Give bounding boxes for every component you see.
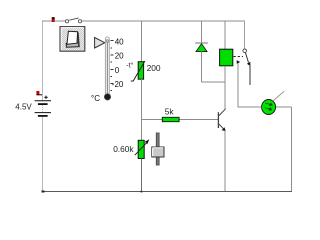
thermometer bulb bbox=[104, 94, 110, 100]
wire: fixed contact lead down to lamp bbox=[238, 63, 261, 107]
wire: top-left horizontal from left rail to switch bbox=[42, 20, 65, 22]
battery B1 4.5V cell plates bbox=[35, 101, 51, 117]
switch SW1 right terminal bbox=[78, 20, 81, 23]
wire: top horizontal bus from switch to relay contact branch bbox=[82, 20, 245, 22]
relay actuation dashed link bbox=[234, 56, 244, 58]
wire: lamp right lead bbox=[276, 106, 291, 108]
svg-text:20: 20 bbox=[115, 52, 124, 61]
switch SW1 blade bbox=[69, 18, 78, 20]
diode D1 cathode bar bbox=[195, 42, 208, 44]
svg-text:5k: 5k bbox=[165, 107, 175, 117]
junction dot bottom-left bbox=[42, 191, 45, 193]
transistor Q1 emitter diagonal bbox=[219, 124, 225, 130]
lamp pointer diagonal line bbox=[273, 91, 284, 101]
relay contact blade bbox=[245, 53, 248, 63]
relay contact pivot terminal bbox=[243, 49, 247, 53]
thermometer scale ticks bbox=[110, 41, 113, 91]
wire: thermistor branch upper (top bus to thermistor) bbox=[140, 21, 142, 62]
transistor Q1 base bar bbox=[217, 112, 219, 128]
wire: left rail vertical above battery bbox=[42, 21, 44, 101]
svg-text:-20: -20 bbox=[112, 80, 124, 89]
potentiometer wiper arrow bbox=[135, 139, 150, 155]
svg-text:200: 200 bbox=[147, 63, 161, 73]
resistor R2 5k body bbox=[162, 117, 179, 121]
battery plus sign bbox=[44, 96, 47, 99]
transistor Q1 collector diagonal bbox=[219, 109, 226, 116]
transistor Q1 emitter arrow bbox=[222, 127, 226, 131]
lamp L1 (lit) body bbox=[262, 100, 276, 115]
wire: right return vertical bbox=[290, 107, 292, 192]
wire: thermistor branch lower (thermistor to potentiometer) bbox=[140, 79, 142, 140]
switch SW1 (open) left terminal bbox=[65, 20, 68, 23]
thermometer tube bbox=[105, 37, 109, 95]
wire: coil to transistor collector bbox=[224, 66, 226, 109]
rocker switch button icon bbox=[60, 27, 85, 52]
wire: relay contact branch from top bus bbox=[244, 21, 246, 49]
svg-text:0.60k: 0.60k bbox=[113, 144, 134, 154]
wire: left rail vertical below battery bbox=[42, 117, 44, 192]
thermometer pointer arrow bbox=[95, 38, 105, 49]
thermistor RT1 body bbox=[138, 62, 143, 79]
thermistor symbol diagonal with foot bbox=[131, 61, 145, 81]
rocker white key bbox=[67, 31, 78, 44]
svg-text:0: 0 bbox=[115, 66, 120, 75]
wire: base wire from branch to transistor bbox=[141, 119, 218, 121]
relay actuation arrow right bbox=[247, 62, 250, 66]
lamp interior marks bbox=[265, 103, 273, 110]
relay actuation arrow left bbox=[237, 60, 241, 64]
wire: bottom bus bbox=[42, 191, 292, 193]
wire: diode branch upper (top bus to diode) bbox=[201, 21, 203, 43]
slider control icon for potentiometer bbox=[152, 133, 164, 165]
wire: emitter to bottom bus bbox=[224, 131, 226, 192]
wire: diode branch lower bbox=[201, 52, 203, 82]
svg-text:°C: °C bbox=[91, 94, 100, 103]
diode D1 triangle (pointing up) bbox=[196, 44, 207, 52]
wire: relay coil branch (top bus to coil) bbox=[224, 21, 226, 49]
rocker shadow/recess bbox=[66, 42, 79, 47]
voltage marker (red) on top-left wire bbox=[52, 17, 55, 22]
battery marker (red flag) bbox=[36, 91, 42, 95]
svg-text:40: 40 bbox=[115, 37, 124, 46]
potentiometer VR1 body bbox=[138, 140, 144, 158]
relay contact blade extension bbox=[249, 65, 251, 85]
junction dot at potentiometer branch bbox=[140, 191, 142, 193]
wire: potentiometer to bottom bus bbox=[140, 159, 142, 193]
svg-text:-t°: -t° bbox=[126, 62, 133, 70]
wire: diode bottom horizontal joining collector line bbox=[202, 81, 226, 83]
svg-text:4.5V: 4.5V bbox=[15, 102, 32, 111]
relay coil RL1 body bbox=[220, 49, 233, 66]
